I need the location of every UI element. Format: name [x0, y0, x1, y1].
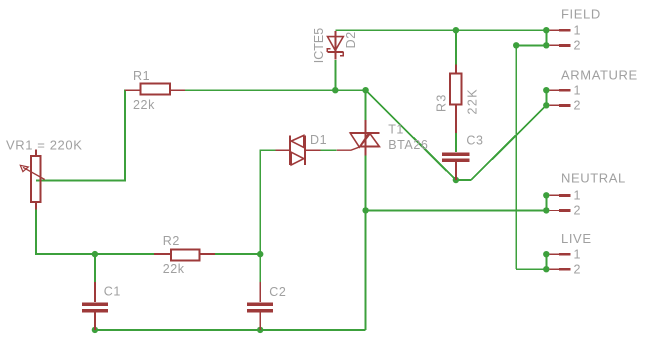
wire: T1 MT1 down through NEUTRAL node to bottom rail	[365, 156, 367, 330]
svg-text:ARMATURE: ARMATURE	[561, 68, 638, 83]
svg-text:C3: C3	[466, 134, 483, 148]
svg-text:NEUTRAL: NEUTRAL	[561, 171, 626, 186]
svg-text:1: 1	[574, 247, 582, 261]
junction dot: C1 bottom rail	[92, 327, 98, 333]
diac D1	[275, 135, 320, 165]
connector NEUTRAL pin 1	[543, 189, 581, 203]
junction dot: C3 bottom node	[453, 177, 459, 183]
svg-text:22K: 22K	[465, 88, 479, 114]
svg-text:VR1 = 220K: VR1 = 220K	[6, 138, 82, 153]
wire: top rail D2 to FIELD pin1	[335, 29, 546, 31]
connector LIVE pin 2	[543, 262, 581, 276]
connector LIVE pin 1	[543, 247, 581, 261]
junction dot: FIELD pin2 / long vertical	[513, 42, 519, 48]
wire: FIELD pin1 to pin2 vertical	[545, 30, 547, 45]
svg-text:FIELD: FIELD	[561, 7, 601, 22]
svg-text:C1: C1	[104, 284, 121, 298]
triac T1	[337, 120, 380, 156]
wire: VR1 bottom to R2 node	[36, 210, 95, 255]
svg-text:D1: D1	[310, 133, 327, 147]
wire: FIELD pin2 horizontal	[516, 44, 546, 46]
capacitor C3	[442, 154, 469, 180]
wire: LIVE pin2 horizontal	[516, 268, 546, 270]
junction dot: R1 rail / T1 top	[362, 87, 368, 93]
wire: C2 node down to C2 top lead	[259, 254, 261, 282]
wire: diagonal ARMATURE pin2 to C3 stub	[471, 105, 546, 180]
svg-text:2: 2	[574, 39, 582, 53]
resistor R1	[125, 84, 185, 95]
junction dot: R1 rail / D2	[332, 87, 338, 93]
wire: D1 left lead down to C2 node	[260, 150, 275, 254]
svg-text:2: 2	[574, 99, 582, 113]
wire: R3 top lead	[455, 30, 457, 64]
suppressor diode D2 (ICTE5)	[327, 31, 343, 60]
wire: NEUTRAL rail	[366, 209, 547, 211]
potentiometer VR1	[20, 149, 44, 209]
wire: D1 right lead to T1 gate lead	[321, 149, 337, 151]
wire: T1 top node to T1 MT2	[365, 90, 367, 120]
junction dot: T1 / NEUTRAL rail	[362, 207, 368, 213]
svg-text:1: 1	[574, 23, 582, 37]
connector FIELD pin 2	[543, 39, 581, 53]
svg-text:R1: R1	[133, 69, 150, 83]
svg-text:C2: C2	[269, 285, 286, 299]
connector FIELD pin 1	[543, 23, 581, 37]
resistor R2	[154, 250, 215, 261]
svg-text:R2: R2	[163, 234, 180, 248]
svg-text:22k: 22k	[163, 262, 185, 276]
connector NEUTRAL pin 2	[543, 204, 581, 218]
svg-text:1: 1	[574, 189, 582, 203]
wire: VR1 wiper to R1 left corner	[36, 90, 140, 180]
wire: horizontal stub at C3 bottom node	[456, 179, 471, 181]
svg-text:R3: R3	[435, 93, 449, 112]
svg-text:D2: D2	[344, 31, 358, 48]
wire: R2 node to R2 left lead	[95, 253, 154, 255]
wire: C1 node down to C1 top lead	[94, 254, 96, 282]
svg-text:22k: 22k	[133, 98, 155, 112]
junction dot: R2 / D1 / C2 node	[257, 251, 263, 257]
wire: D2 bottom to R1 rail	[334, 60, 336, 90]
wire: R2 right lead to C2 node	[215, 253, 260, 255]
svg-text:LIVE: LIVE	[561, 231, 592, 246]
junction dot: VR1 / R2 / C1 node	[92, 251, 98, 257]
connector ARMATURE pin 1	[543, 83, 581, 97]
wire: diagonal C3 bottom node to T1 top node	[366, 90, 456, 180]
svg-text:T1: T1	[388, 123, 404, 137]
svg-text:ICTE5: ICTE5	[312, 28, 326, 63]
svg-text:2: 2	[574, 204, 582, 218]
wire: R3 bottom to C3 top	[455, 133, 457, 152]
capacitor C2	[247, 282, 273, 330]
wire: ARMATURE pin1 to pin2 vertical	[545, 90, 547, 105]
wire: long vertical FIELD junction to LIVE	[515, 45, 517, 269]
junction dot: top rail / R3	[453, 27, 459, 33]
wire: NEUTRAL pin1 to pin2 vertical	[545, 195, 547, 210]
svg-text:2: 2	[574, 262, 582, 276]
wire: bottom rail	[95, 329, 366, 331]
wire: R1 output rail	[185, 89, 366, 91]
connector ARMATURE pin 2	[543, 99, 581, 113]
capacitor C1	[82, 282, 108, 330]
wire: LIVE pin1 to pin2 vertical	[545, 254, 547, 269]
resistor R3 (vertical)	[450, 65, 462, 134]
junction dot: C2 bottom rail	[257, 327, 263, 333]
svg-text:BTA26: BTA26	[388, 138, 428, 152]
svg-text:1: 1	[574, 83, 582, 97]
